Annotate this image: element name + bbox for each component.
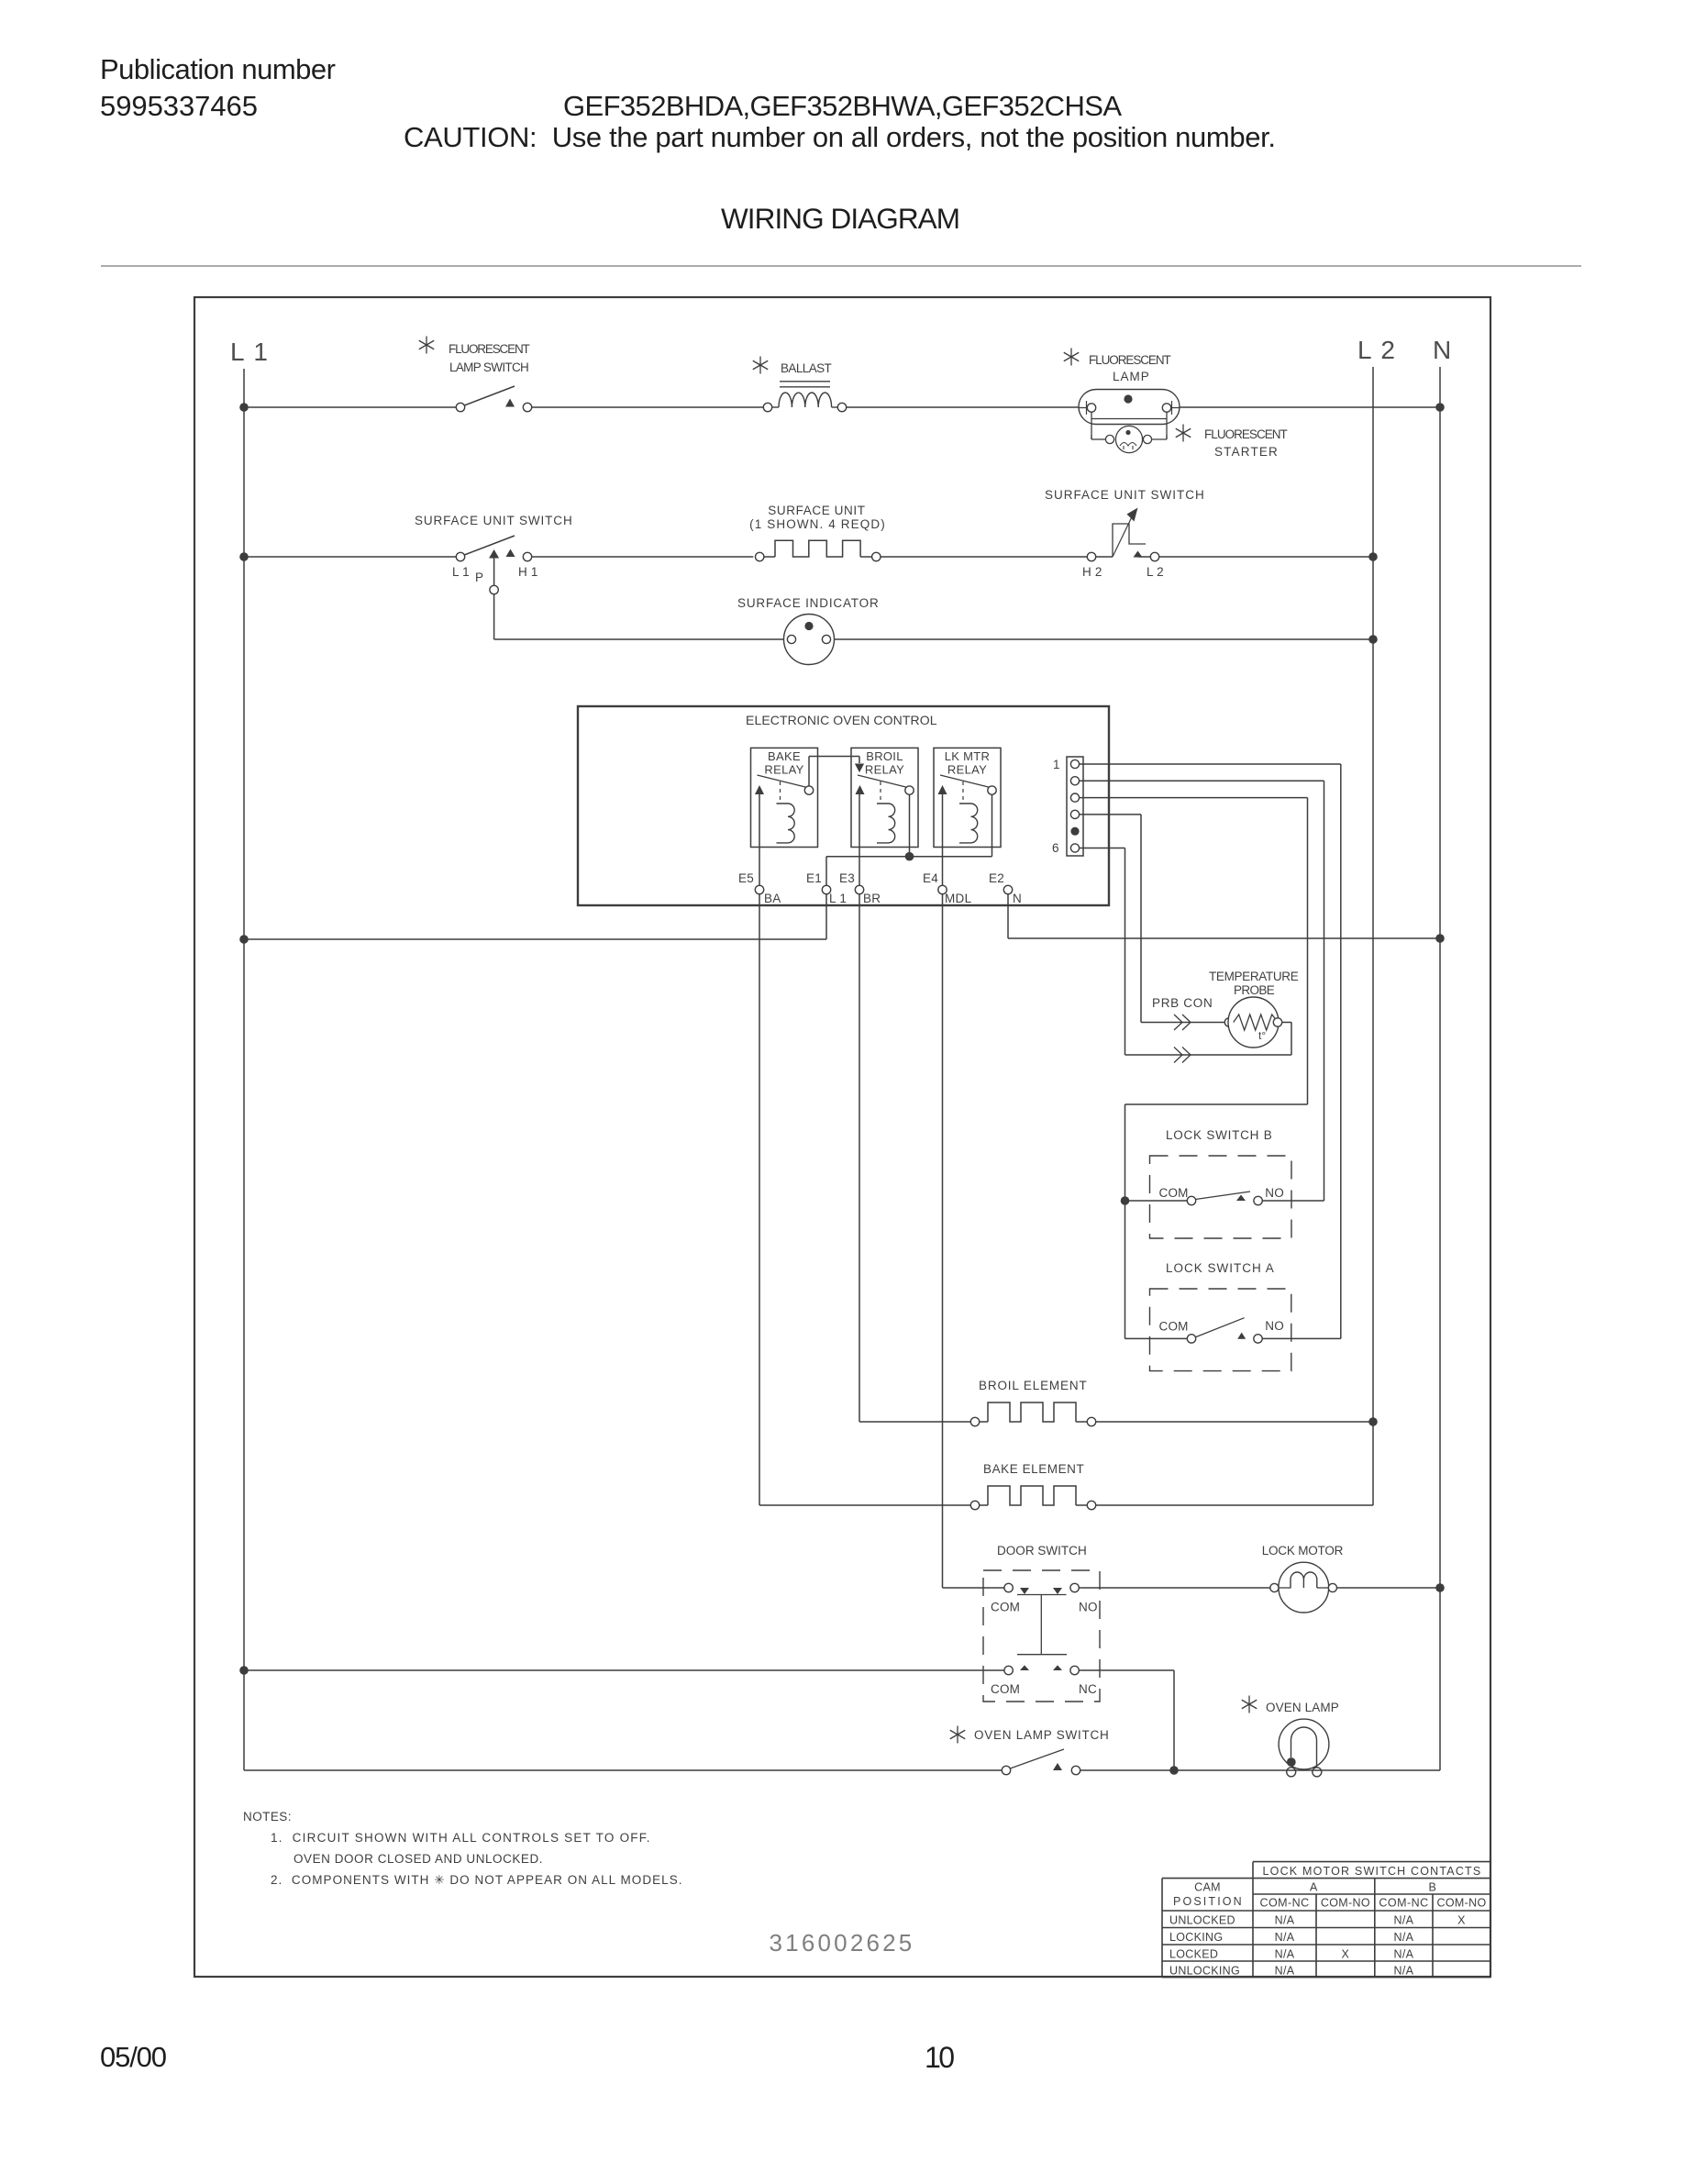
svg-text:RELAY: RELAY (764, 763, 803, 777)
svg-text:NO: NO (1265, 1319, 1284, 1333)
svg-text:N: N (1433, 336, 1451, 364)
svg-text:2. COMPONENTS WITH ✳ DO NOT A: 2. COMPONENTS WITH ✳ DO NOT APPEAR ON AL… (271, 1873, 682, 1887)
svg-text:TEMPERATURE: TEMPERATURE (1209, 970, 1299, 983)
svg-text:L 1: L 1 (230, 338, 269, 366)
svg-text:E3: E3 (839, 871, 855, 885)
svg-text:N/A: N/A (1275, 1914, 1295, 1927)
svg-text:N/A: N/A (1394, 1931, 1414, 1944)
svg-text:GEF352BHDA,GEF352BHWA,GEF352CH: GEF352BHDA,GEF352BHWA,GEF352CHSA (563, 90, 1122, 122)
svg-text:BALLAST: BALLAST (781, 361, 832, 375)
svg-text:POSITION: POSITION (1173, 1895, 1242, 1908)
svg-text:BAKE: BAKE (768, 749, 801, 763)
svg-text:N: N (1013, 892, 1022, 905)
svg-text:SURFACE UNIT: SURFACE UNIT (768, 504, 865, 517)
svg-text:LK MTR: LK MTR (945, 749, 990, 763)
svg-text:E4: E4 (923, 871, 938, 885)
svg-text:E2: E2 (989, 871, 1004, 885)
svg-text:NO: NO (1079, 1601, 1098, 1614)
svg-text:OVEN LAMP SWITCH: OVEN LAMP SWITCH (974, 1728, 1109, 1742)
svg-text:A: A (1310, 1881, 1318, 1894)
svg-text:SURFACE INDICATOR: SURFACE INDICATOR (737, 596, 879, 610)
svg-text:BROIL ELEMENT: BROIL ELEMENT (979, 1379, 1087, 1392)
svg-text:COM: COM (1159, 1186, 1189, 1200)
svg-text:SURFACE UNIT SWITCH: SURFACE UNIT SWITCH (415, 514, 572, 527)
svg-text:316002625: 316002625 (770, 1929, 915, 1957)
svg-text:Publication number: Publication number (100, 53, 336, 85)
svg-text:LAMP: LAMP (1113, 370, 1149, 383)
svg-text:PRB CON: PRB CON (1152, 996, 1213, 1010)
svg-text:COM-NO: COM-NO (1437, 1897, 1487, 1910)
svg-text:BR: BR (863, 892, 881, 905)
svg-text:N/A: N/A (1394, 1948, 1414, 1961)
svg-text:5995337465: 5995337465 (100, 90, 258, 122)
svg-text:LOCK SWITCH A: LOCK SWITCH A (1166, 1261, 1274, 1275)
svg-text:N/A: N/A (1275, 1948, 1295, 1961)
svg-text:ELECTRONIC OVEN CONTROL: ELECTRONIC OVEN CONTROL (746, 713, 937, 727)
svg-text:OVEN LAMP: OVEN LAMP (1266, 1701, 1339, 1714)
svg-text:LOCK SWITCH B: LOCK SWITCH B (1166, 1128, 1272, 1142)
svg-text:10: 10 (925, 2041, 955, 2074)
svg-text:L 1: L 1 (452, 565, 470, 579)
svg-text:05/00: 05/00 (100, 2041, 167, 2073)
svg-text:BAKE ELEMENT: BAKE ELEMENT (983, 1462, 1084, 1476)
svg-text:FLUORESCENT: FLUORESCENT (449, 342, 530, 356)
svg-text:E1: E1 (806, 871, 822, 885)
svg-text:RELAY: RELAY (947, 763, 987, 777)
svg-text:B: B (1428, 1881, 1436, 1894)
svg-text:CAM: CAM (1194, 1881, 1221, 1894)
svg-text:UNLOCKING: UNLOCKING (1169, 1965, 1240, 1978)
svg-text:L 2: L 2 (1357, 336, 1396, 364)
svg-text:X: X (1457, 1914, 1466, 1927)
svg-text:LAMP SWITCH: LAMP SWITCH (449, 360, 529, 374)
svg-text:6: 6 (1052, 841, 1059, 855)
svg-text:DOOR SWITCH: DOOR SWITCH (997, 1544, 1087, 1558)
svg-text:LOCK MOTOR SWITCH CONTACTS: LOCK MOTOR SWITCH CONTACTS (1263, 1865, 1481, 1878)
svg-text:(1 SHOWN. 4 REQD): (1 SHOWN. 4 REQD) (749, 517, 885, 531)
svg-text:COM-NO: COM-NO (1321, 1897, 1370, 1910)
svg-text:NO: NO (1265, 1186, 1284, 1200)
svg-text:N/A: N/A (1394, 1965, 1414, 1978)
svg-text:NC: NC (1079, 1682, 1097, 1696)
svg-text:LOCKING: LOCKING (1169, 1931, 1223, 1944)
svg-text:LOCK MOTOR: LOCK MOTOR (1262, 1544, 1344, 1558)
svg-text:H 1: H 1 (518, 565, 538, 579)
svg-text:PROBE: PROBE (1234, 983, 1275, 997)
svg-text:LOCKED: LOCKED (1169, 1948, 1218, 1961)
svg-text:FLUORESCENT: FLUORESCENT (1204, 427, 1288, 441)
svg-text:P: P (475, 571, 483, 584)
svg-text:UNLOCKED: UNLOCKED (1169, 1914, 1235, 1927)
svg-text:X: X (1341, 1948, 1349, 1961)
svg-text:COM-NC: COM-NC (1379, 1897, 1428, 1910)
svg-text:BROIL: BROIL (866, 749, 903, 763)
svg-text:STARTER: STARTER (1214, 445, 1278, 459)
svg-text:CAUTION: Use the part number: CAUTION: Use the part number on all orde… (404, 121, 1276, 153)
svg-text:N/A: N/A (1275, 1931, 1295, 1944)
svg-text:FLUORESCENT: FLUORESCENT (1089, 353, 1171, 367)
svg-text:COM: COM (991, 1601, 1020, 1614)
svg-text:COM: COM (991, 1682, 1020, 1696)
svg-text:OVEN DOOR CLOSED AND UNLOCKED.: OVEN DOOR CLOSED AND UNLOCKED. (294, 1852, 543, 1866)
svg-text:WIRING DIAGRAM: WIRING DIAGRAM (721, 202, 960, 235)
svg-text:N/A: N/A (1275, 1965, 1295, 1978)
svg-text:COM: COM (1159, 1320, 1189, 1334)
svg-text:1: 1 (1053, 758, 1060, 771)
svg-text:N/A: N/A (1394, 1914, 1414, 1927)
svg-text:E5: E5 (738, 871, 754, 885)
svg-text:L 2: L 2 (1147, 565, 1164, 579)
svg-text:MDL: MDL (945, 892, 972, 905)
svg-text:RELAY: RELAY (865, 763, 904, 777)
svg-text:SURFACE UNIT SWITCH: SURFACE UNIT SWITCH (1045, 488, 1204, 502)
svg-text:H 2: H 2 (1082, 565, 1102, 579)
svg-text:NOTES:: NOTES: (243, 1810, 292, 1824)
svg-text:COM-NC: COM-NC (1260, 1897, 1310, 1910)
svg-text:BA: BA (764, 892, 781, 905)
svg-text:1. CIRCUIT SHOWN WITH ALL CON: 1. CIRCUIT SHOWN WITH ALL CONTROLS SET T… (271, 1831, 650, 1845)
svg-text:t°: t° (1258, 1029, 1266, 1042)
svg-text:L 1: L 1 (829, 892, 847, 905)
